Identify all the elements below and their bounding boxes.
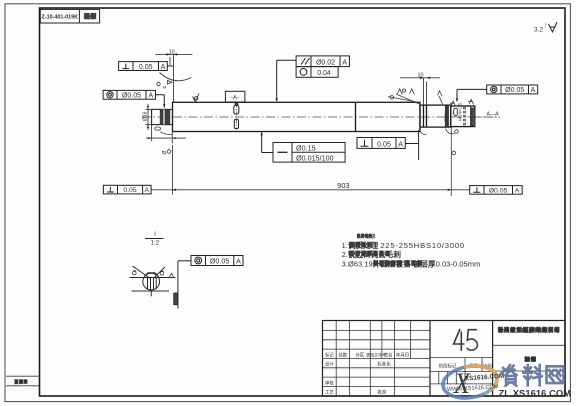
svg-text:1.调质处理 225-255HBS10/3000: 1.调质处理 225-255HBS10/3000: [342, 240, 465, 250]
svg-text:工艺: 工艺: [325, 390, 334, 395]
svg-text:审核: 审核: [325, 379, 334, 386]
svg-text:A: A: [515, 188, 520, 195]
svg-text:徐州徐工液压件有限公司: 徐州徐工液压件有限公司: [498, 327, 560, 335]
svg-text:A: A: [236, 257, 241, 266]
svg-text:Z-10-401-019K: Z-10-401-019K: [42, 14, 79, 20]
svg-text:A: A: [531, 87, 536, 94]
svg-text:3.2: 3.2: [534, 27, 543, 34]
svg-text:Ø0.15: Ø0.15: [296, 144, 316, 153]
svg-text:0.04: 0.04: [317, 70, 331, 77]
svg-text:Ø16: Ø16: [143, 111, 149, 121]
svg-text:A—A: A—A: [487, 112, 500, 118]
svg-text:A: A: [342, 59, 347, 66]
svg-text:10: 10: [169, 50, 175, 56]
svg-text:年月日: 年月日: [396, 351, 409, 358]
svg-text:Ø0.05: Ø0.05: [505, 87, 524, 94]
svg-text:蓝图数: 蓝图数: [14, 378, 28, 385]
svg-text:X: X: [453, 368, 472, 401]
svg-text:分区: 分区: [356, 351, 365, 358]
svg-text:0.05: 0.05: [123, 187, 136, 194]
svg-text:处数: 处数: [338, 351, 347, 358]
svg-text:Ø0.05: Ø0.05: [489, 188, 508, 195]
svg-text:Ø0.05: Ø0.05: [122, 93, 141, 100]
svg-text:-A-: -A-: [231, 95, 240, 102]
svg-text:A: A: [148, 93, 153, 100]
svg-text:Ø30: Ø30: [444, 113, 449, 122]
svg-text:3.Ø63.19外圆磨镀铬 镀层厚0.03-0.05mm: 3.Ø63.19外圆磨镀铬 镀层厚0.03-0.05mm: [342, 258, 481, 268]
svg-text:Ø0.05: Ø0.05: [210, 257, 230, 266]
svg-text:Ø0.015/100: Ø0.015/100: [296, 153, 334, 162]
svg-text:技术要求: 技术要求: [357, 233, 376, 240]
svg-text:Ø0.02: Ø0.02: [316, 59, 335, 66]
svg-text:1:2: 1:2: [151, 241, 160, 247]
svg-text:M24×1.5: M24×1.5: [458, 103, 463, 121]
svg-text:轴体: 轴体: [524, 356, 536, 364]
svg-text:0.05: 0.05: [377, 139, 391, 148]
svg-text:A: A: [161, 64, 166, 71]
svg-text:标记: 标记: [325, 351, 334, 358]
svg-text:903: 903: [337, 181, 349, 190]
svg-text:2.锐边倒钝去毛刺: 2.锐边倒钝去毛刺: [342, 249, 402, 259]
svg-text:签名: 签名: [384, 351, 393, 358]
svg-text:批准: 批准: [378, 389, 387, 396]
svg-text:标准化: 标准化: [377, 361, 391, 368]
svg-text:设计: 设计: [325, 361, 334, 368]
svg-text:M: M: [163, 85, 166, 90]
svg-text:0.05: 0.05: [139, 64, 153, 71]
svg-text:A: A: [398, 139, 403, 148]
svg-text:ZL.XS1616.COM: ZL.XS1616.COM: [499, 389, 572, 399]
svg-text:A: A: [145, 187, 150, 194]
